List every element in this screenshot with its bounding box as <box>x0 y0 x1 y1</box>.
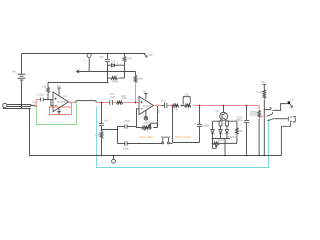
potentiometer RV2 10k volume <box>182 93 191 107</box>
svg-text:100n: 100n <box>122 147 129 151</box>
node output stage1 <box>70 102 72 104</box>
svg-text:TIP42: TIP42 <box>218 139 227 143</box>
svg-text:4µ7: 4µ7 <box>104 118 110 122</box>
switch SW1 select <box>161 137 173 144</box>
svg-text:1k: 1k <box>63 94 67 98</box>
resistor R13 2.2k pullup <box>256 90 265 99</box>
ground G1 stub <box>88 58 90 71</box>
jack contact lower <box>267 119 273 121</box>
node rail junction A <box>107 53 109 55</box>
wire bottom ground rail <box>30 109 282 156</box>
svg-text:100k: 100k <box>112 80 119 84</box>
svg-text:100k: 100k <box>143 121 150 125</box>
wire top rail <box>22 53 146 55</box>
capacitor C6 100n <box>118 141 162 150</box>
wire mic to C1 jog <box>31 105 36 106</box>
ground G2 marker <box>112 156 116 164</box>
green box stage1 highlight <box>37 102 77 125</box>
resistor R5 10k to stage2 <box>134 72 143 83</box>
diode D4 left branch <box>205 121 219 143</box>
power stub op-amp U1 <box>57 84 62 96</box>
diode D1 <box>108 59 125 67</box>
wire feedback top rail <box>48 82 108 84</box>
wire red bias drop <box>135 83 137 102</box>
potentiometer RV3 bias <box>212 139 237 149</box>
svg-text:1k: 1k <box>239 129 243 133</box>
resistor R3 10k vertical <box>123 54 132 72</box>
cyan box filter/output highlight <box>97 106 269 167</box>
wire red into C1 <box>36 100 40 107</box>
op-amp U1 TL072 <box>53 92 69 112</box>
svg-text:47µ: 47µ <box>99 55 104 59</box>
resistor R6 10k series <box>113 94 127 104</box>
svg-text:10k: 10k <box>122 96 127 100</box>
headphone jack J1 <box>273 116 295 155</box>
svg-text:twin-t filter: twin-t filter <box>139 135 153 139</box>
capacitor C7 10u out <box>161 98 173 108</box>
wire red to C3 <box>97 102 110 104</box>
power tap symbol at rail end <box>144 53 154 57</box>
capacitor C1 1.5uF <box>33 92 54 104</box>
wire red main out rail <box>194 106 260 111</box>
svg-text:100R: 100R <box>249 113 257 117</box>
speaker SP1 <box>273 97 294 110</box>
battery B1 9V <box>13 54 26 109</box>
svg-text:2.2k: 2.2k <box>256 90 262 94</box>
power tap 9V right <box>262 80 267 90</box>
svg-text:TIP41: TIP41 <box>228 135 237 139</box>
wire hop over boxes <box>75 101 97 103</box>
svg-text:1M: 1M <box>42 85 47 89</box>
node rail junction B <box>124 53 126 55</box>
wire bias vertical joins <box>108 72 125 79</box>
op-amp U2 TL072 <box>139 96 154 114</box>
svg-text:C1: C1 <box>33 100 37 104</box>
wire battery to mic junction <box>21 104 23 106</box>
wire red U2 out <box>154 105 162 107</box>
svg-text:filter bypass: filter bypass <box>175 135 192 139</box>
capacitor C3 10uF series <box>110 92 116 105</box>
resistor R12 right branch <box>228 121 243 143</box>
svg-text:100µ: 100µ <box>236 118 243 122</box>
wire red feedback drop <box>71 103 73 108</box>
resistor R10 emitter left <box>219 120 222 130</box>
resistor R7 10k to ground <box>95 130 103 156</box>
capacitor C2 47u <box>99 54 110 83</box>
wire filter tee <box>102 127 118 144</box>
svg-text:D1: D1 <box>112 59 116 63</box>
power stub U2 <box>143 90 148 100</box>
microphone MIC1 <box>3 103 31 108</box>
wire bypass loop <box>173 142 200 144</box>
svg-text:10k: 10k <box>138 76 143 80</box>
wire red stage1 out <box>69 102 76 104</box>
diode D2 <box>219 130 223 139</box>
svg-text:4µ7: 4µ7 <box>110 95 116 99</box>
ground stub op-amp U1 <box>57 108 61 114</box>
wire bias rail <box>79 71 135 73</box>
wire red to U2 <box>123 102 139 104</box>
svg-text:+: + <box>194 121 196 125</box>
capacitor C9 100u output <box>236 106 249 156</box>
svg-text:TL072: TL072 <box>142 104 151 108</box>
potentiometer RV1 100k feedback <box>142 106 158 131</box>
diode D3 <box>225 130 229 139</box>
svg-text:1N: 1N <box>205 124 209 128</box>
svg-text:+: + <box>116 61 118 65</box>
jack contact lever <box>267 112 273 117</box>
wire inverting input stub <box>51 100 53 106</box>
svg-text:LS: LS <box>290 97 294 101</box>
wire push-pull bottom <box>213 138 231 140</box>
svg-text:100n: 100n <box>123 119 130 123</box>
red box feedback highlight <box>50 107 72 115</box>
svg-text:Q1: Q1 <box>216 109 220 113</box>
svg-text:1.5µF: 1.5µF <box>37 92 45 96</box>
svg-text:4µ7: 4µ7 <box>157 108 161 114</box>
svg-text:10k: 10k <box>95 133 100 137</box>
svg-text:10µ: 10µ <box>161 98 166 102</box>
capacitor C5 100n <box>118 119 137 129</box>
capacitor C8 10u tap <box>194 106 207 143</box>
capacitor C4 4.7u to filter <box>99 103 109 130</box>
resistor R11 emitter right <box>226 120 229 130</box>
ground stub U2 <box>144 110 148 120</box>
resistor R14 100R series out <box>249 110 260 156</box>
resistor R8 4.7k <box>172 104 179 111</box>
wire inverting input U2 <box>137 109 142 128</box>
svg-text:TL072: TL072 <box>57 100 66 104</box>
connector J2 on rail <box>84 53 91 63</box>
svg-text:10k: 10k <box>127 56 132 60</box>
transistor Q1 <box>216 106 228 121</box>
port arrow to battery <box>76 70 79 73</box>
wire jack sleeve down <box>263 110 265 156</box>
svg-text:1k: 1k <box>90 98 94 102</box>
wire switch to tap <box>172 106 174 143</box>
wire red tap to contact <box>260 115 265 117</box>
resistor R4 100k <box>108 77 125 84</box>
resistor R1 1M <box>42 83 50 100</box>
svg-text:10k: 10k <box>184 93 189 97</box>
wire vcc to jack contact <box>264 99 271 109</box>
